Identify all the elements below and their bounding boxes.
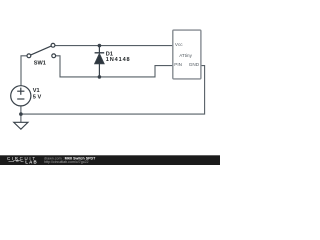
svg-text:PIN: PIN bbox=[174, 62, 182, 67]
wire top net: switch throw to Vcc pin bbox=[55, 45, 173, 47]
wire ground net: V1 bottom to GND pin bbox=[21, 66, 205, 123]
node junction at diode bottom bbox=[98, 75, 102, 79]
wire PIN net: lower throw to PIN pin bbox=[55, 56, 172, 77]
diode D1 bbox=[95, 46, 105, 77]
logo CircuitLab bbox=[7, 156, 38, 165]
svg-text:SW1: SW1 bbox=[34, 61, 46, 67]
IC U1 ATtiny box bbox=[173, 30, 201, 79]
ground bbox=[14, 122, 28, 129]
logo trace squiggle bbox=[9, 160, 24, 162]
svg-text:5 V: 5 V bbox=[33, 95, 42, 101]
svg-text:Vcc: Vcc bbox=[175, 42, 183, 47]
svg-text:V1: V1 bbox=[33, 88, 40, 94]
svg-text:http://circuitlab.com/c/7gc22: http://circuitlab.com/c/7gc22 bbox=[44, 160, 89, 164]
voltage source V1 bbox=[11, 86, 31, 106]
footer bar bbox=[0, 155, 220, 165]
node junction on top wire at diode bbox=[98, 44, 102, 48]
node junction below V1 bbox=[19, 112, 23, 116]
svg-text:LAB: LAB bbox=[25, 160, 38, 165]
svg-text:1N4148: 1N4148 bbox=[106, 57, 131, 63]
svg-text:ATtiny: ATtiny bbox=[179, 53, 192, 58]
wire pole net: switch pole to V1 bbox=[21, 56, 27, 86]
switch SW1 bbox=[27, 43, 56, 57]
svg-text:GND: GND bbox=[189, 62, 200, 67]
